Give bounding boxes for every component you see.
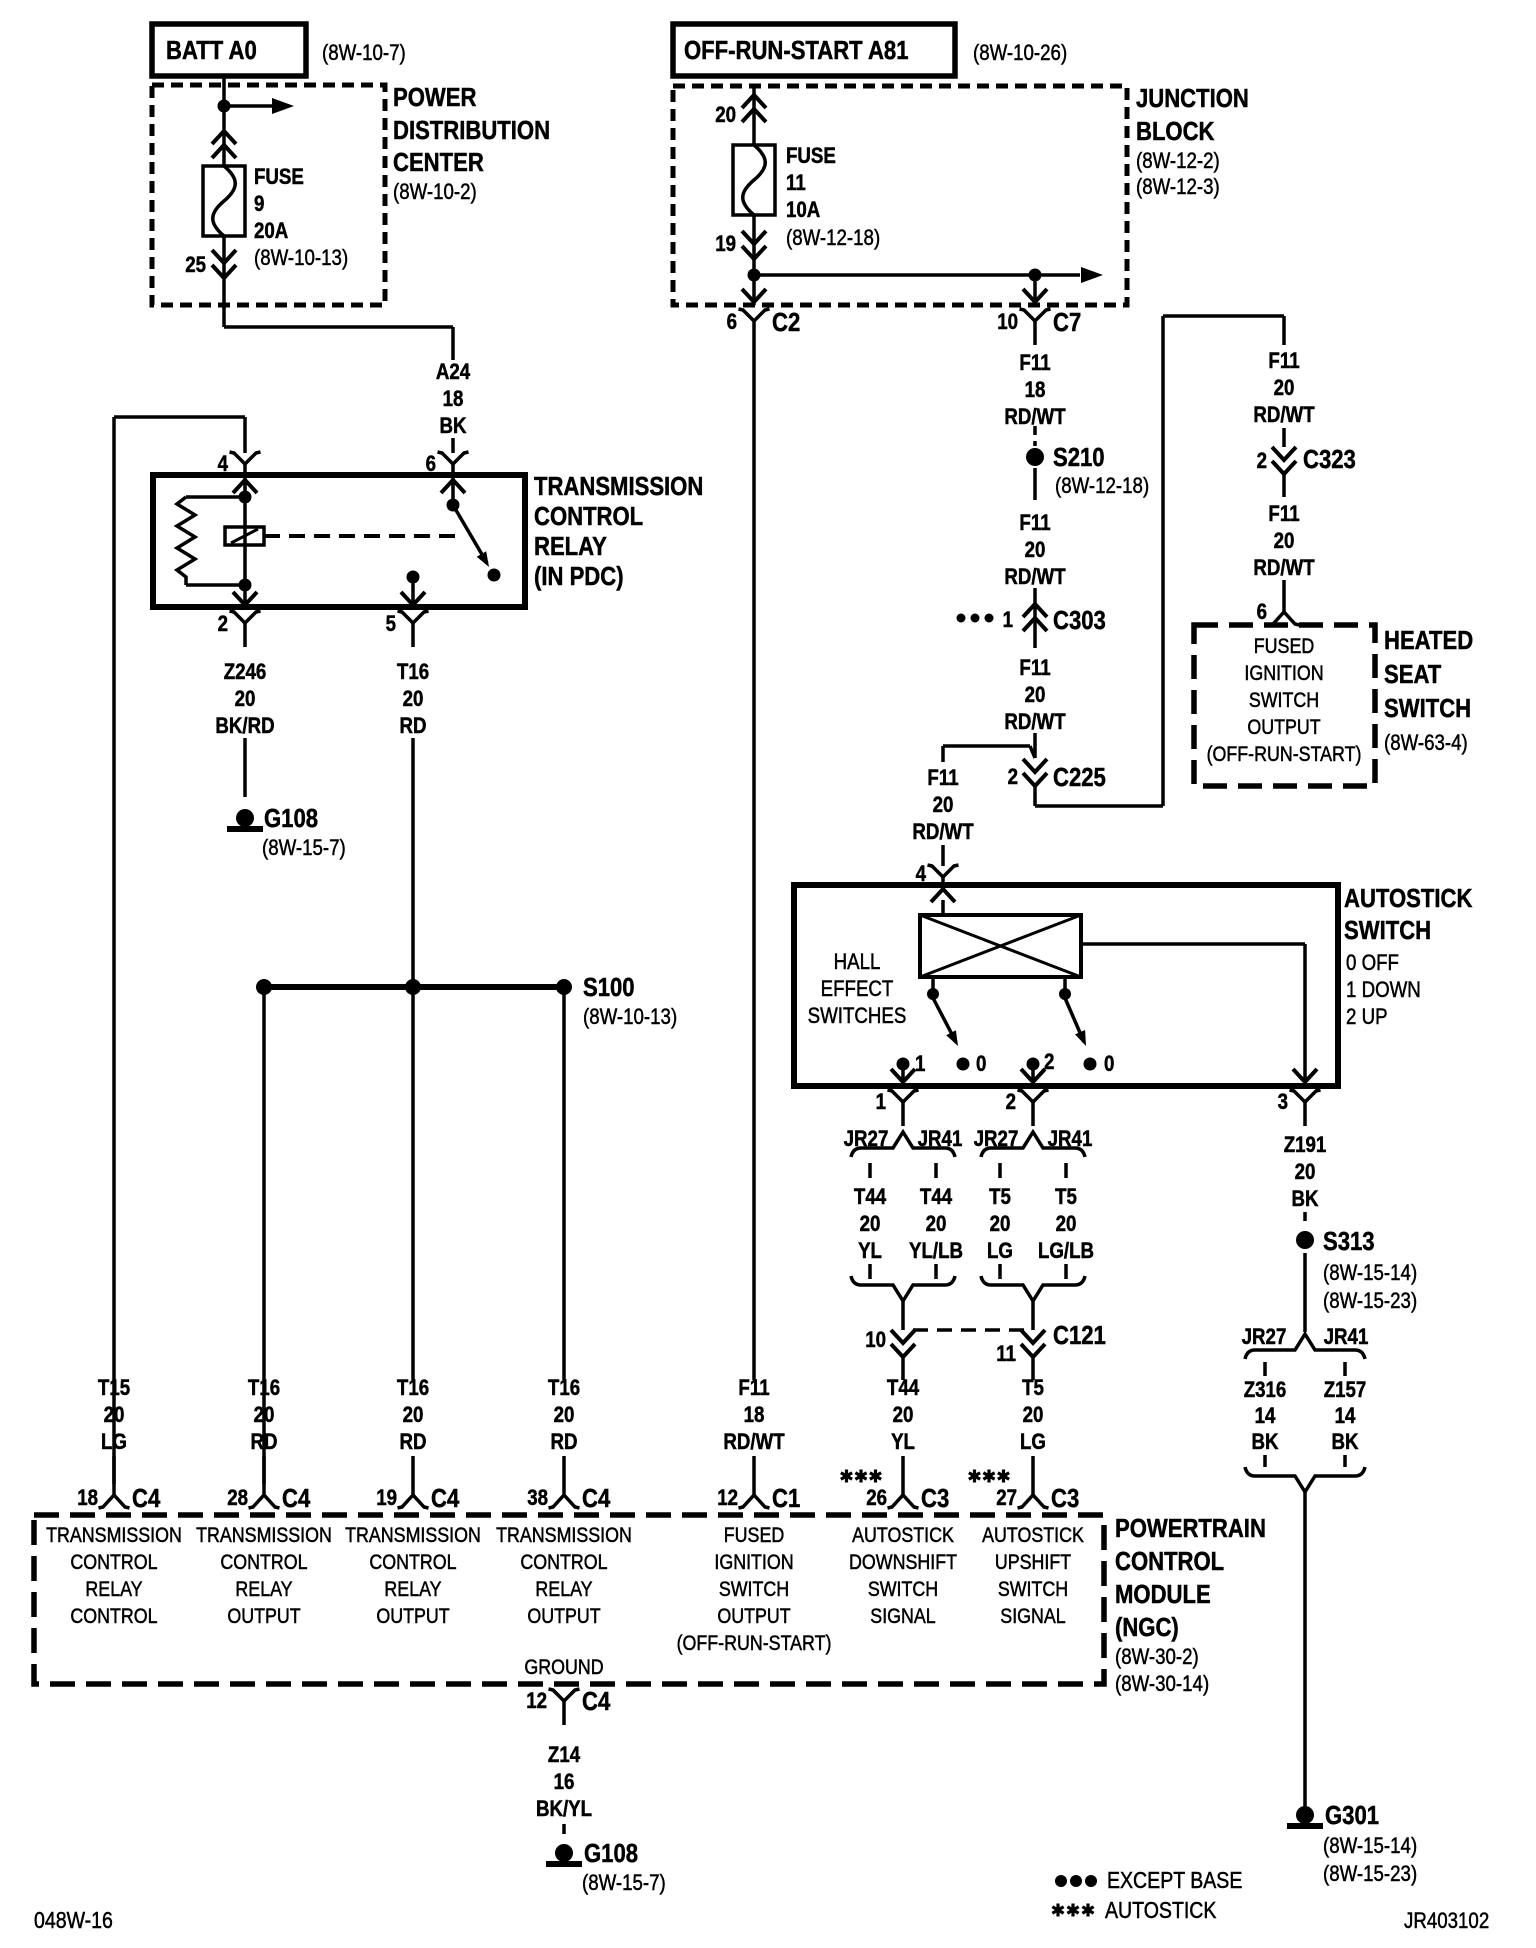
svg-text:18: 18 — [77, 1487, 98, 1511]
svg-text:C323: C323 — [1303, 445, 1356, 474]
svg-text:10A: 10A — [786, 199, 821, 223]
svg-text:C303: C303 — [1053, 606, 1106, 635]
svg-text:18: 18 — [744, 1404, 765, 1428]
svg-text:SIGNAL: SIGNAL — [870, 1605, 936, 1629]
svg-text:1: 1 — [1003, 609, 1013, 633]
svg-text:HALL: HALL — [834, 951, 881, 975]
svg-text:C3: C3 — [1051, 1484, 1079, 1513]
svg-text:Z191: Z191 — [1284, 1134, 1327, 1158]
svg-text:(8W-10-7): (8W-10-7) — [322, 42, 406, 66]
svg-text:JR41: JR41 — [1048, 1128, 1093, 1152]
svg-text:26: 26 — [866, 1487, 887, 1511]
svg-text:AUTOSTICK: AUTOSTICK — [1344, 884, 1473, 913]
svg-text:(8W-10-13): (8W-10-13) — [254, 247, 348, 271]
svg-text:SWITCH: SWITCH — [1384, 694, 1471, 723]
svg-text:2: 2 — [1257, 450, 1267, 474]
svg-text:C121: C121 — [1053, 1321, 1106, 1350]
svg-text:10: 10 — [865, 1329, 886, 1353]
svg-text:G108: G108 — [264, 804, 318, 833]
svg-text:1 DOWN: 1 DOWN — [1346, 979, 1421, 1003]
svg-text:19: 19 — [376, 1487, 397, 1511]
svg-text:T5: T5 — [1022, 1377, 1044, 1401]
svg-text:A24: A24 — [436, 361, 471, 385]
svg-text:CONTROL: CONTROL — [1115, 1547, 1224, 1576]
svg-text:S210: S210 — [1053, 443, 1105, 472]
svg-text:(8W-10-13): (8W-10-13) — [583, 1006, 677, 1030]
svg-text:14: 14 — [1335, 1405, 1356, 1429]
svg-text:BLOCK: BLOCK — [1136, 117, 1215, 146]
svg-text:OUTPUT: OUTPUT — [376, 1605, 449, 1629]
svg-text:2: 2 — [1008, 766, 1018, 790]
svg-text:AUTOSTICK: AUTOSTICK — [852, 1524, 954, 1548]
svg-text:C225: C225 — [1053, 763, 1106, 792]
svg-text:F11: F11 — [1019, 512, 1050, 536]
svg-text:AUTOSTICK: AUTOSTICK — [982, 1524, 1084, 1548]
svg-text:20: 20 — [554, 1404, 575, 1428]
svg-text:RD: RD — [399, 715, 426, 739]
svg-text:RELAY: RELAY — [384, 1578, 441, 1602]
svg-text:T15: T15 — [98, 1377, 130, 1401]
svg-text:TRANSMISSION: TRANSMISSION — [345, 1524, 481, 1548]
svg-text:(NGC): (NGC) — [1115, 1613, 1179, 1642]
svg-text:20: 20 — [403, 688, 424, 712]
svg-text:12: 12 — [526, 1690, 547, 1714]
svg-text:BK/YL: BK/YL — [536, 1798, 592, 1822]
svg-text:6: 6 — [426, 453, 436, 477]
svg-text:(OFF-RUN-START): (OFF-RUN-START) — [1207, 743, 1362, 767]
svg-text:6: 6 — [727, 311, 737, 335]
svg-text:C4: C4 — [431, 1484, 460, 1513]
svg-text:20: 20 — [1025, 539, 1046, 563]
svg-text:(8W-15-7): (8W-15-7) — [582, 1872, 666, 1896]
svg-text:JUNCTION: JUNCTION — [1136, 84, 1249, 113]
svg-text:RD: RD — [550, 1431, 577, 1455]
svg-text:SWITCH: SWITCH — [868, 1578, 938, 1602]
svg-text:POWER: POWER — [393, 83, 476, 112]
svg-text:(8W-63-4): (8W-63-4) — [1384, 732, 1468, 756]
svg-text:RELAY: RELAY — [85, 1578, 142, 1602]
svg-text:RD/WT: RD/WT — [1004, 566, 1066, 590]
svg-text:EFFECT: EFFECT — [821, 978, 894, 1002]
svg-text:20: 20 — [254, 1404, 275, 1428]
svg-text:20: 20 — [893, 1404, 914, 1428]
svg-text:T5: T5 — [989, 1186, 1011, 1210]
svg-text:F11: F11 — [738, 1377, 769, 1401]
svg-text:BK: BK — [439, 415, 466, 439]
svg-text:JR27: JR27 — [844, 1128, 889, 1152]
svg-text:IGNITION: IGNITION — [1244, 662, 1323, 686]
svg-text:GROUND: GROUND — [524, 1656, 603, 1680]
svg-text:C4: C4 — [132, 1484, 161, 1513]
svg-text:LG/LB: LG/LB — [1038, 1240, 1094, 1264]
svg-text:Z157: Z157 — [1324, 1379, 1367, 1403]
svg-text:LG: LG — [987, 1240, 1013, 1264]
svg-text:BK/RD: BK/RD — [215, 715, 274, 739]
svg-text:C2: C2 — [772, 308, 800, 337]
svg-text:F11: F11 — [1019, 352, 1050, 376]
svg-text:CONTROL: CONTROL — [369, 1551, 456, 1575]
svg-text:JR41: JR41 — [918, 1128, 963, 1152]
svg-text:OFF-RUN-START A81: OFF-RUN-START A81 — [684, 36, 908, 65]
svg-text:C4: C4 — [282, 1484, 311, 1513]
svg-text:20: 20 — [104, 1404, 125, 1428]
svg-text:C1: C1 — [772, 1484, 800, 1513]
svg-text:EXCEPT BASE: EXCEPT BASE — [1107, 1868, 1242, 1894]
svg-text:F11: F11 — [1019, 657, 1050, 681]
svg-text:UPSHIFT: UPSHIFT — [995, 1551, 1071, 1575]
svg-text:TRANSMISSION: TRANSMISSION — [534, 472, 703, 501]
svg-text:CONTROL: CONTROL — [520, 1551, 607, 1575]
svg-text:SWITCH: SWITCH — [719, 1578, 789, 1602]
svg-text:HEATED: HEATED — [1384, 626, 1473, 655]
svg-text:FUSE: FUSE — [254, 166, 304, 190]
svg-text:(8W-10-2): (8W-10-2) — [393, 181, 477, 205]
svg-text:RELAY: RELAY — [235, 1578, 292, 1602]
svg-text:DOWNSHIFT: DOWNSHIFT — [849, 1551, 957, 1575]
svg-text:(8W-15-14): (8W-15-14) — [1323, 1835, 1417, 1859]
svg-text:RD/WT: RD/WT — [912, 821, 974, 845]
svg-text:20: 20 — [933, 794, 954, 818]
svg-text:20: 20 — [715, 104, 736, 128]
svg-text:RELAY: RELAY — [535, 1578, 592, 1602]
svg-text:C4: C4 — [582, 1484, 611, 1513]
svg-text:TRANSMISSION: TRANSMISSION — [196, 1524, 332, 1548]
svg-text:25: 25 — [185, 254, 206, 278]
svg-text:OUTPUT: OUTPUT — [1247, 716, 1320, 740]
svg-text:20: 20 — [860, 1213, 881, 1237]
svg-text:JR41: JR41 — [1324, 1326, 1369, 1350]
svg-text:(8W-15-7): (8W-15-7) — [262, 837, 346, 861]
svg-text:JR27: JR27 — [974, 1128, 1019, 1152]
svg-text:JR27: JR27 — [1242, 1326, 1287, 1350]
svg-text:048W-16: 048W-16 — [34, 1908, 113, 1934]
svg-text:SEAT: SEAT — [1384, 660, 1442, 689]
svg-text:OUTPUT: OUTPUT — [717, 1605, 790, 1629]
svg-text:18: 18 — [443, 388, 464, 412]
svg-text:F11: F11 — [1268, 503, 1299, 527]
svg-text:F11: F11 — [1268, 350, 1299, 374]
svg-text:IGNITION: IGNITION — [714, 1551, 793, 1575]
svg-text:T16: T16 — [548, 1377, 580, 1401]
svg-text:T5: T5 — [1055, 1186, 1077, 1210]
svg-text:14: 14 — [1255, 1405, 1276, 1429]
svg-text:11: 11 — [786, 172, 806, 196]
svg-text:SWITCH: SWITCH — [998, 1578, 1068, 1602]
svg-text:27: 27 — [996, 1487, 1017, 1511]
svg-text:YL: YL — [891, 1431, 915, 1455]
svg-text:T16: T16 — [397, 661, 429, 685]
svg-text:0 OFF: 0 OFF — [1346, 952, 1399, 976]
svg-text:(8W-15-14): (8W-15-14) — [1323, 1262, 1417, 1286]
svg-text:RELAY: RELAY — [534, 532, 607, 561]
svg-text:BK: BK — [1251, 1431, 1278, 1455]
svg-text:BK: BK — [1291, 1188, 1318, 1212]
svg-text:(8W-30-14): (8W-30-14) — [1115, 1673, 1209, 1697]
svg-text:20: 20 — [1274, 530, 1295, 554]
svg-text:18: 18 — [1025, 379, 1046, 403]
svg-text:(8W-12-3): (8W-12-3) — [1136, 176, 1220, 200]
svg-text:TRANSMISSION: TRANSMISSION — [496, 1524, 632, 1548]
svg-text:SWITCH: SWITCH — [1249, 689, 1319, 713]
svg-text:SWITCH: SWITCH — [1344, 916, 1431, 945]
svg-text:OUTPUT: OUTPUT — [227, 1605, 300, 1629]
svg-text:DISTRIBUTION: DISTRIBUTION — [393, 116, 550, 145]
svg-text:C4: C4 — [582, 1687, 611, 1716]
svg-text:F11: F11 — [927, 767, 958, 791]
svg-text:SWITCHES: SWITCHES — [808, 1005, 907, 1029]
svg-text:0: 0 — [976, 1053, 986, 1077]
svg-text:20A: 20A — [254, 220, 289, 244]
svg-text:T16: T16 — [248, 1377, 280, 1401]
svg-text:RD: RD — [250, 1431, 277, 1455]
svg-text:CONTROL: CONTROL — [70, 1605, 157, 1629]
svg-text:20: 20 — [990, 1213, 1011, 1237]
svg-text:FUSED: FUSED — [724, 1524, 784, 1548]
svg-text:BATT A0: BATT A0 — [166, 36, 257, 65]
svg-text:20: 20 — [1274, 377, 1295, 401]
svg-text:Z316: Z316 — [1244, 1379, 1287, 1403]
svg-text:16: 16 — [554, 1771, 575, 1795]
svg-text:YL/LB: YL/LB — [909, 1240, 963, 1264]
svg-text:T16: T16 — [397, 1377, 429, 1401]
svg-text:LG: LG — [1020, 1431, 1046, 1455]
svg-text:(8W-12-18): (8W-12-18) — [1055, 475, 1149, 499]
svg-text:20: 20 — [403, 1404, 424, 1428]
svg-text:(8W-15-23): (8W-15-23) — [1323, 1863, 1417, 1887]
svg-text:3: 3 — [1278, 1091, 1288, 1115]
svg-text:12: 12 — [717, 1487, 738, 1511]
svg-text:YL: YL — [858, 1240, 882, 1264]
svg-text:RD/WT: RD/WT — [723, 1431, 785, 1455]
svg-text:20: 20 — [1025, 684, 1046, 708]
svg-text:C7: C7 — [1053, 308, 1081, 337]
svg-text:BK: BK — [1331, 1431, 1358, 1455]
svg-text:SIGNAL: SIGNAL — [1000, 1605, 1066, 1629]
svg-text:20: 20 — [1295, 1161, 1316, 1185]
svg-text:T44: T44 — [854, 1186, 887, 1210]
svg-text:6: 6 — [1257, 601, 1267, 625]
svg-text:RD/WT: RD/WT — [1004, 711, 1066, 735]
svg-text:19: 19 — [715, 233, 736, 257]
svg-text:20: 20 — [235, 688, 256, 712]
svg-text:C3: C3 — [921, 1484, 949, 1513]
svg-text:S100: S100 — [583, 973, 635, 1002]
svg-text:JR403102: JR403102 — [1404, 1910, 1489, 1934]
svg-text:2 UP: 2 UP — [1346, 1006, 1388, 1030]
svg-text:G108: G108 — [584, 1839, 638, 1868]
svg-text:TRANSMISSION: TRANSMISSION — [46, 1524, 182, 1548]
svg-text:RD/WT: RD/WT — [1253, 557, 1315, 581]
svg-text:CONTROL: CONTROL — [70, 1551, 157, 1575]
svg-text:9: 9 — [254, 193, 264, 217]
svg-text:CENTER: CENTER — [393, 148, 484, 177]
svg-text:G301: G301 — [1325, 1801, 1379, 1830]
svg-text:20: 20 — [1056, 1213, 1077, 1237]
svg-text:2: 2 — [1006, 1091, 1016, 1115]
svg-text:RD: RD — [399, 1431, 426, 1455]
svg-text:T44: T44 — [887, 1377, 920, 1401]
svg-text:2: 2 — [218, 613, 228, 637]
svg-text:(8W-30-2): (8W-30-2) — [1115, 1646, 1199, 1670]
svg-text:T44: T44 — [920, 1186, 953, 1210]
svg-text:1: 1 — [876, 1091, 886, 1115]
svg-text:4: 4 — [218, 453, 229, 477]
svg-text:11: 11 — [996, 1343, 1016, 1367]
svg-text:20: 20 — [926, 1213, 947, 1237]
svg-text:LG: LG — [101, 1431, 127, 1455]
svg-text:S313: S313 — [1323, 1227, 1375, 1256]
svg-text:CONTROL: CONTROL — [534, 502, 643, 531]
svg-text:(8W-15-23): (8W-15-23) — [1323, 1290, 1417, 1314]
svg-text:RD/WT: RD/WT — [1004, 406, 1066, 430]
svg-text:MODULE: MODULE — [1115, 1580, 1211, 1609]
svg-text:AUTOSTICK: AUTOSTICK — [1105, 1898, 1216, 1924]
svg-text:38: 38 — [527, 1487, 548, 1511]
svg-text:(OFF-RUN-START): (OFF-RUN-START) — [677, 1632, 832, 1656]
svg-text:RD/WT: RD/WT — [1253, 404, 1315, 428]
svg-text:CONTROL: CONTROL — [220, 1551, 307, 1575]
svg-text:FUSED: FUSED — [1254, 635, 1314, 659]
svg-text:(8W-12-18): (8W-12-18) — [786, 227, 880, 251]
svg-text:Z14: Z14 — [548, 1744, 581, 1768]
svg-text:0: 0 — [1104, 1053, 1114, 1077]
svg-text:(IN PDC): (IN PDC) — [534, 562, 624, 591]
svg-text:OUTPUT: OUTPUT — [527, 1605, 600, 1629]
svg-text:POWERTRAIN: POWERTRAIN — [1115, 1514, 1266, 1543]
svg-text:FUSE: FUSE — [786, 145, 836, 169]
svg-text:20: 20 — [1023, 1404, 1044, 1428]
svg-text:10: 10 — [997, 311, 1018, 335]
svg-text:Z246: Z246 — [224, 661, 267, 685]
svg-text:1: 1 — [915, 1053, 925, 1077]
svg-text:5: 5 — [386, 613, 396, 637]
svg-text:28: 28 — [227, 1487, 248, 1511]
svg-text:(8W-10-26): (8W-10-26) — [973, 42, 1067, 66]
svg-text:(8W-12-2): (8W-12-2) — [1136, 150, 1220, 174]
